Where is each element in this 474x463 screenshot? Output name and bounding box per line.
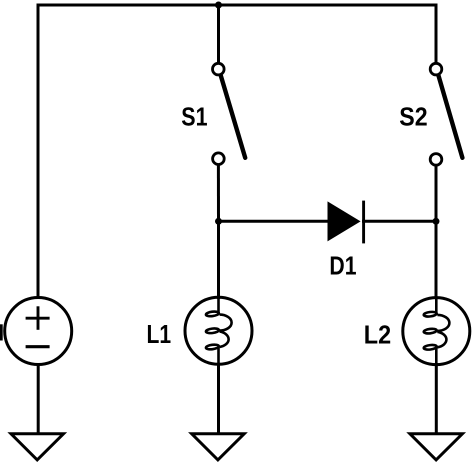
ground (under battery) bbox=[11, 434, 64, 460]
wire: lamp L1 to ground bbox=[217, 363, 220, 434]
lamp L1 bbox=[185, 297, 252, 365]
svg-text:L2: L2 bbox=[364, 321, 391, 349]
voltage source V1 bbox=[5, 298, 72, 365]
switch S1 top terminal bbox=[213, 63, 225, 75]
wire: lamp L2 to ground bbox=[435, 363, 438, 434]
junction: top node bbox=[215, 2, 222, 9]
junction: node A bbox=[215, 218, 222, 225]
switch S1 blade bbox=[221, 76, 245, 158]
wire: battery to ground bbox=[37, 363, 40, 434]
ground (under L1) bbox=[192, 434, 245, 460]
wire: top junction down to S1 top terminal bbox=[217, 5, 220, 63]
svg-text:S2: S2 bbox=[399, 103, 427, 132]
label D1 bbox=[329, 253, 356, 282]
wire: node A down to lamp L1 bbox=[217, 221, 220, 299]
diode D1 anode triangle bbox=[328, 201, 361, 241]
wire: node A to diode anode bbox=[219, 220, 331, 223]
switch S2 blade bbox=[439, 76, 463, 158]
label S1 bbox=[181, 103, 207, 132]
junction: node B bbox=[433, 218, 440, 225]
wire: top rail (right half) down to S2 top terminal bbox=[217, 5, 436, 63]
wire: diode cathode to node B bbox=[362, 220, 436, 223]
svg-text:D1: D1 bbox=[329, 253, 356, 282]
label S2 bbox=[399, 103, 427, 132]
switch S2 top terminal bbox=[430, 63, 442, 75]
diode D1 cathode bar bbox=[362, 201, 365, 244]
svg-text:S1: S1 bbox=[181, 103, 207, 132]
ground (under L2) bbox=[410, 434, 463, 460]
wire: S1 bottom terminal to node A bbox=[217, 165, 220, 223]
label L2 bbox=[364, 321, 391, 349]
svg-text:L1: L1 bbox=[147, 321, 172, 350]
lamp L2 bbox=[403, 297, 470, 365]
clipped label fragment at left edge (V1) bbox=[0, 324, 3, 340]
label L1 bbox=[147, 321, 172, 350]
wire: battery top to top-left corner and top rail (left half) bbox=[38, 5, 220, 298]
switch S1 bottom terminal bbox=[213, 153, 225, 165]
switch S2 bottom terminal bbox=[430, 154, 442, 166]
wire: S2 bottom terminal to node B bbox=[435, 166, 438, 223]
wire: node B down to lamp L2 bbox=[435, 221, 438, 299]
